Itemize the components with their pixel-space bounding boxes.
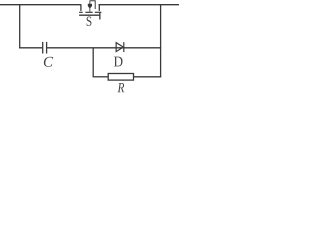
diode D xyxy=(116,42,124,52)
switch S xyxy=(79,1,101,20)
label D xyxy=(114,57,123,67)
wire right vertical side xyxy=(160,4,162,77)
label S xyxy=(87,17,92,26)
wire top-right segment xyxy=(99,4,180,6)
wire bottom segment left of resistor xyxy=(93,76,109,78)
label R xyxy=(118,83,125,92)
wire middle segment right of capacitor xyxy=(47,47,161,49)
wire branch vertical at node between D and R xyxy=(92,48,94,77)
wire top-left segment xyxy=(0,4,81,6)
resistor R xyxy=(108,74,133,81)
wire left vertical drop xyxy=(19,4,21,48)
capacitor C xyxy=(43,42,47,54)
label C xyxy=(44,57,53,67)
wire middle segment left of capacitor xyxy=(19,47,42,49)
wire bottom segment right of resistor xyxy=(134,76,162,78)
